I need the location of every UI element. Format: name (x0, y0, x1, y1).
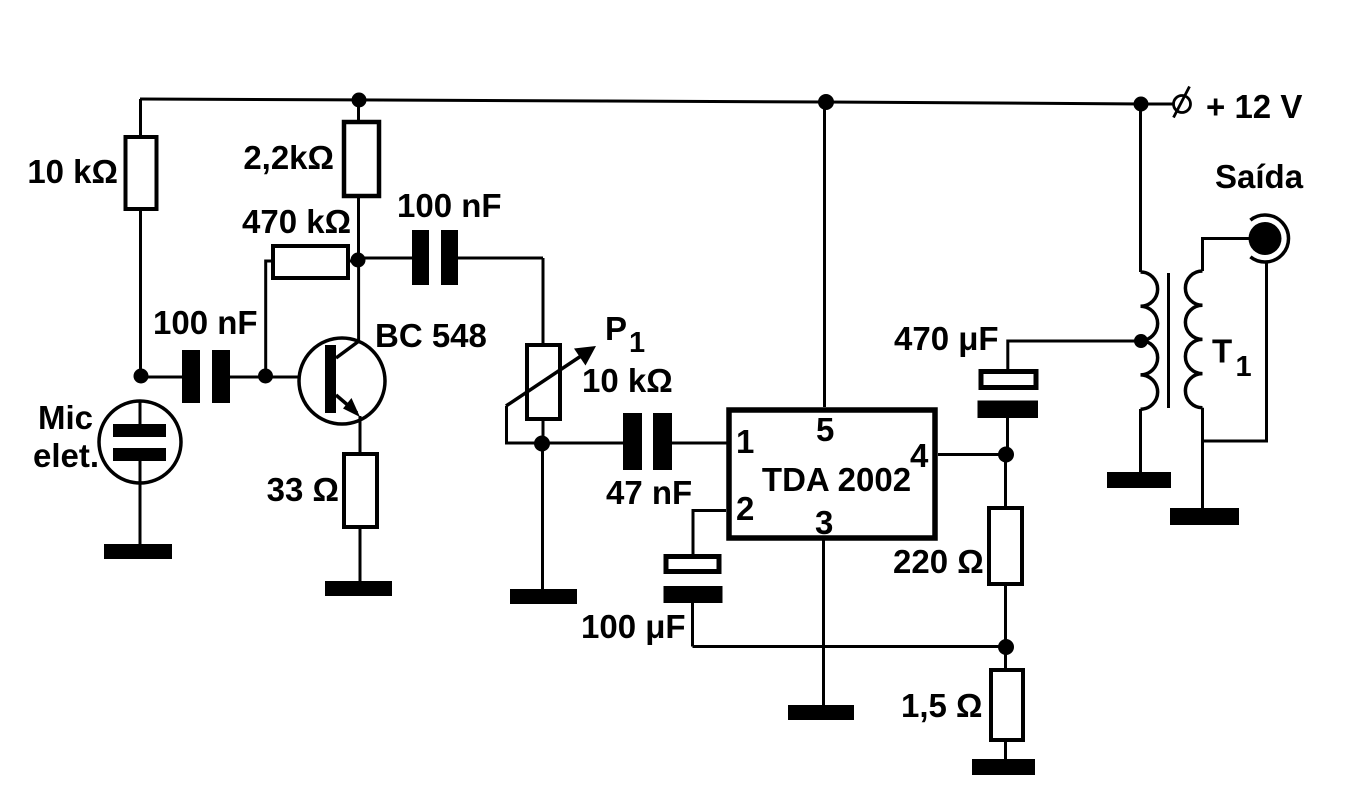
svg-text:10 kΩ: 10 kΩ (582, 362, 673, 399)
svg-text:1: 1 (1236, 351, 1252, 383)
capacitor 100nF coupling (358, 230, 543, 285)
wire cap to P1 (542, 258, 545, 345)
resistor 1,5 ohm (991, 670, 1023, 740)
svg-text:1,5 Ω: 1,5 Ω (901, 687, 983, 724)
node rail-T1 (1134, 97, 1149, 112)
ground 33 ohm (325, 581, 392, 596)
svg-text:P: P (605, 310, 627, 347)
svg-text:2,2kΩ: 2,2kΩ (243, 139, 334, 176)
resistor 10k (126, 137, 157, 209)
node rail-pin5 (818, 94, 834, 110)
resistor 220 ohm (989, 508, 1022, 584)
svg-text:470 μF: 470 μF (894, 320, 999, 357)
svg-text:TDA 2002: TDA 2002 (762, 461, 911, 498)
output jack Saida (1249, 215, 1289, 262)
wire node to 220 (1004, 454, 1007, 508)
svg-text:+ 12 V: + 12 V (1206, 88, 1302, 125)
node base (258, 369, 273, 384)
svg-text:Mic: Mic (38, 399, 93, 436)
svg-text:33 Ω: 33 Ω (267, 471, 339, 508)
transformer core (1167, 273, 1170, 408)
wire 220 to node2 (1004, 584, 1007, 647)
ground P1 (510, 589, 577, 604)
node 220-1,5 (998, 639, 1014, 655)
capacitor 470uF (978, 341, 1142, 454)
ground pin3 (788, 705, 854, 720)
svg-text:elet.: elet. (33, 437, 99, 474)
capacitor 100nF input (141, 350, 265, 403)
wire pin3 (822, 538, 825, 705)
svg-text:100 μF: 100 μF (581, 608, 686, 645)
transformer T1 secondary winding (1185, 271, 1202, 408)
capacitor 47nF (542, 413, 727, 470)
node T1 tap (1134, 334, 1148, 348)
node pin4 (998, 447, 1014, 463)
wire pin2 (693, 511, 726, 555)
transformer T1 primary wire (1139, 104, 1142, 272)
node collector (351, 253, 366, 268)
node mic (134, 369, 149, 384)
+12V terminal (1148, 87, 1191, 118)
ground mic (104, 544, 172, 559)
svg-text:2: 2 (736, 490, 754, 527)
op-amp U1 TDA2002 box (729, 410, 935, 538)
potentiometer P1 (506, 345, 596, 443)
svg-text:5: 5 (816, 411, 834, 448)
wire 10k to mic node (139, 209, 142, 376)
svg-text:1: 1 (629, 327, 645, 359)
resistor 2,2k (344, 122, 379, 196)
svg-text:47 nF: 47 nF (606, 474, 692, 511)
wire secondary bottom (1201, 408, 1204, 508)
svg-text:100 nF: 100 nF (397, 187, 502, 224)
wire 470k left stub (266, 261, 274, 376)
wire pin4 (938, 453, 1006, 456)
transistor Q1 BC548 (299, 338, 385, 454)
svg-text:BC 548: BC 548 (375, 317, 487, 354)
wire rail to R 10k (139, 99, 142, 137)
wire 2,2k to collector node (357, 196, 360, 260)
wire 1,5 to ground (1004, 740, 1007, 759)
ground T1 primary (1107, 472, 1171, 488)
transformer T1 primary winding (1141, 272, 1158, 409)
wire 33 to ground (359, 527, 362, 581)
svg-text:470 kΩ: 470 kΩ (242, 203, 351, 240)
wire primary to ground (1139, 409, 1142, 472)
wire +12V rail (140, 99, 1148, 104)
capacitor 100uF (664, 557, 1007, 647)
svg-text:10 kΩ: 10 kΩ (27, 153, 118, 190)
svg-text:T: T (1212, 333, 1232, 370)
svg-text:4: 4 (910, 437, 929, 474)
wire node2 to 1,5 (1004, 647, 1007, 670)
node rail-2k2 (352, 93, 367, 108)
svg-text:3: 3 (815, 504, 833, 541)
wire rail to 2,2k (357, 99, 360, 122)
ground 1,5 ohm (972, 759, 1035, 775)
wire collector (357, 260, 360, 342)
mic electret (99, 401, 181, 544)
wire P1 to ground (541, 443, 544, 589)
resistor 33 ohm (344, 454, 377, 527)
wire pin5 (823, 102, 826, 407)
svg-text:220 Ω: 220 Ω (893, 543, 984, 580)
wire secondary top to jack (1203, 239, 1250, 272)
svg-text:1: 1 (736, 423, 754, 460)
resistor 470k (273, 246, 348, 278)
wire 470k right (348, 260, 359, 263)
wire base (265, 376, 325, 379)
svg-text:100 nF: 100 nF (153, 304, 258, 341)
svg-text:Saída: Saída (1215, 158, 1304, 195)
node P1 wiper (534, 436, 550, 452)
wire shell return (1203, 261, 1267, 441)
ground T1 secondary (1170, 508, 1239, 525)
